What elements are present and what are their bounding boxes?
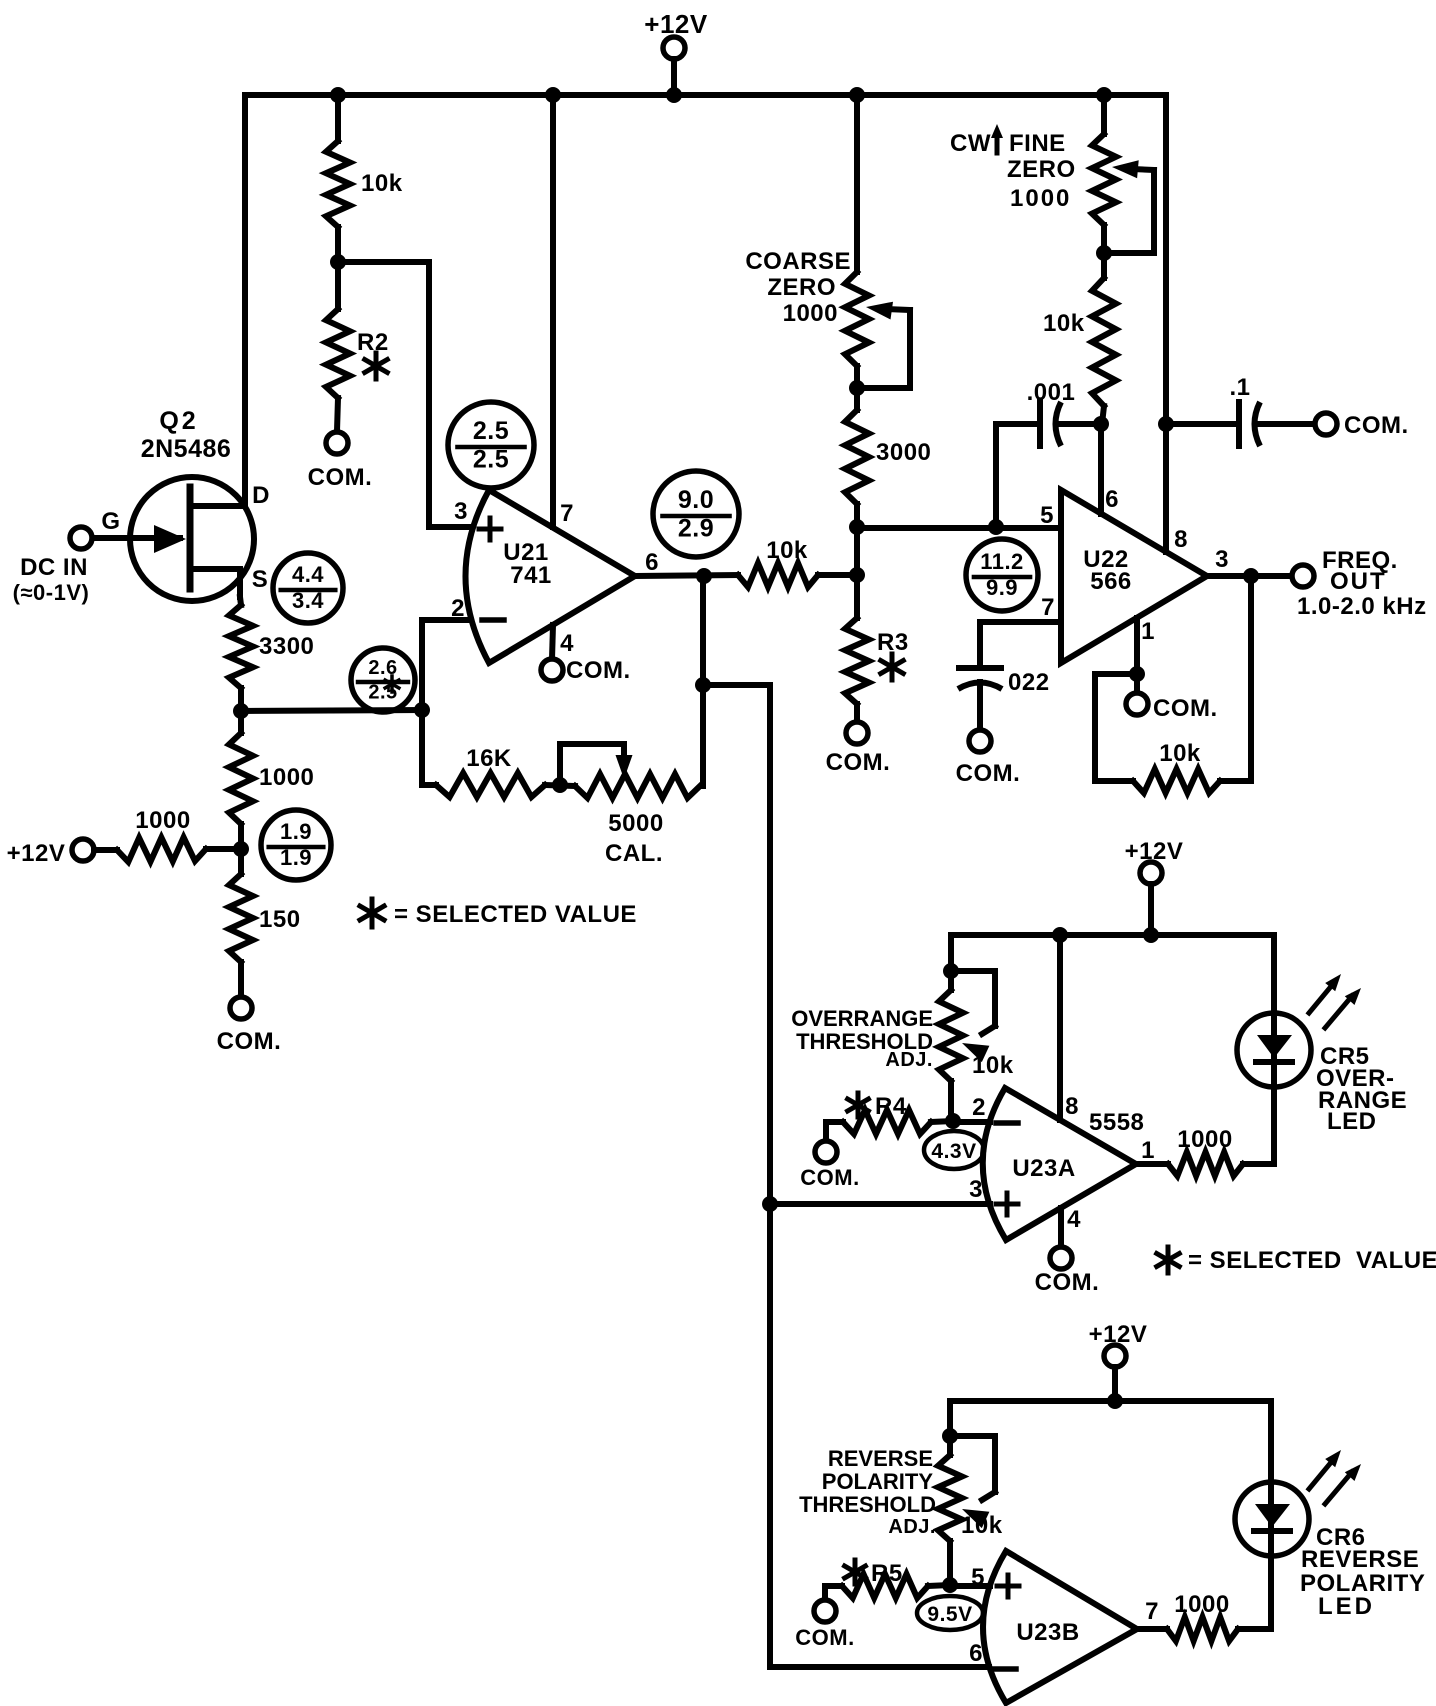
Q2 gate wire with arrow: [91, 535, 180, 541]
Q2 source wire: [193, 569, 240, 597]
junction output/feedback: [695, 677, 711, 693]
wire +12V rail (U23A): [951, 932, 1274, 938]
U23A minus symbol: [996, 1120, 1018, 1126]
svg-text:ADJ.: ADJ.: [888, 1516, 936, 1538]
svg-text:.001: .001: [1027, 379, 1076, 406]
wire +12V top power rail: [245, 92, 1166, 98]
junction +12V/1000/150 node: [233, 841, 249, 857]
svg-text:2N5486: 2N5486: [141, 435, 232, 463]
svg-text:R2: R2: [357, 329, 389, 356]
svg-text:COM.: COM.: [566, 657, 631, 684]
junction rail/10k: [330, 87, 346, 103]
terminal COM. (R2): [326, 432, 348, 454]
resistor R3 (selected): [845, 618, 869, 704]
wire output node to comparator branch: [703, 682, 770, 688]
svg-text:1000: 1000: [1010, 185, 1071, 212]
wire U23B pin6 input: [770, 1664, 989, 1670]
svg-text:7: 7: [1145, 1598, 1159, 1625]
terminal FREQ OUT: [1292, 565, 1314, 587]
svg-text:1.9: 1.9: [280, 819, 312, 844]
junction U23B pin5 node: [942, 1577, 958, 1593]
svg-text:G: G: [101, 508, 120, 535]
CR6 light arrows: [1309, 1460, 1333, 1489]
wire U23A pin4 to COM: [1058, 1208, 1064, 1247]
svg-text:8: 8: [1174, 526, 1188, 553]
resistor R2 (selected): [335, 262, 341, 309]
junction rail/+12V B: [1107, 1393, 1123, 1409]
svg-text:10k: 10k: [1159, 740, 1201, 767]
svg-text:10k: 10k: [961, 1512, 1003, 1539]
testpoint oval 9.5V: [917, 1596, 983, 1630]
svg-text:8: 8: [1065, 1093, 1079, 1120]
junction rail/fine zero: [1096, 87, 1112, 103]
label R3 asterisk: [890, 654, 895, 680]
svg-text:10k: 10k: [972, 1052, 1014, 1079]
wire U21 pin2 to feedback branch: [422, 620, 468, 785]
led CR6 wire: [1268, 1401, 1274, 1629]
svg-text:1000: 1000: [783, 300, 838, 327]
svg-text:COM.: COM.: [1344, 412, 1409, 439]
resistor 150: [238, 849, 244, 874]
junction rail drop/.1 cap: [1158, 416, 1174, 432]
led CR5 overrange: [1237, 1013, 1311, 1087]
svg-text:9.5V: 9.5V: [927, 1603, 972, 1626]
terminal COM. (150): [230, 997, 252, 1019]
potentiometer 5000 CAL: [575, 774, 700, 798]
junction rail/U21 pin7: [545, 87, 561, 103]
svg-text:(≈0-1V): (≈0-1V): [13, 580, 90, 605]
junction pin1 node: [1129, 666, 1145, 682]
junction U21 output: [696, 568, 712, 584]
junction branch/pin3 A: [762, 1196, 778, 1212]
svg-text:022: 022: [1008, 669, 1050, 696]
junction reverse wiper: [942, 1428, 958, 1444]
terminal COM. (U23A pin4): [1050, 1247, 1072, 1269]
junction 16K/5000: [552, 777, 568, 793]
svg-text:COM.: COM.: [800, 1165, 859, 1190]
testpoint circle 2.5/2.5: [448, 402, 534, 488]
svg-text:4.4: 4.4: [292, 562, 324, 587]
svg-text:+12V: +12V: [1089, 1321, 1148, 1348]
testpoint oval 4.3V: [924, 1131, 984, 1169]
svg-text:7: 7: [1041, 594, 1055, 621]
svg-text:R4: R4: [875, 1093, 907, 1120]
wire U21 pin4 to COM: [552, 625, 553, 659]
terminal COM. (.1 cap): [1315, 413, 1337, 435]
svg-text:+12V: +12V: [7, 840, 66, 867]
op-amp U21 741: [466, 490, 636, 663]
svg-text:CW: CW: [950, 130, 991, 157]
transistor Q2 2N5486 JFET body: [130, 477, 254, 601]
wire pin2 to U23A: [953, 1119, 990, 1125]
reverse wiper arm: [950, 1436, 995, 1492]
svg-text:COARSE: COARSE: [745, 248, 851, 275]
svg-text:= SELECTED VALUE: = SELECTED VALUE: [1188, 1247, 1436, 1274]
wire rail left drop to Q2 drain: [242, 95, 248, 506]
wire pin1 node to COM: [1134, 674, 1140, 693]
testpoint circle 4.4/3.4: [273, 553, 343, 623]
svg-text:4: 4: [1067, 1206, 1081, 1233]
terminal COM. (.022): [969, 730, 991, 752]
potentiometer overrange threshold 10k: [948, 935, 954, 990]
svg-text:COM.: COM.: [795, 1625, 854, 1650]
svg-text:2.5: 2.5: [473, 446, 509, 474]
junction 3000/pin5 wire: [849, 519, 865, 535]
svg-text:7: 7: [560, 500, 574, 527]
svg-text:3000: 3000: [876, 439, 931, 466]
svg-text:16K: 16K: [466, 745, 512, 772]
svg-text:U23B: U23B: [1016, 1619, 1079, 1646]
svg-text:1000: 1000: [1174, 1591, 1229, 1618]
U23B plus symbol: [997, 1584, 1019, 1589]
svg-text:1: 1: [1141, 1137, 1155, 1164]
label R4 with asterisk: [856, 1093, 861, 1117]
testpoint circle 11.2/9.9: [966, 539, 1038, 611]
svg-text:ZERO: ZERO: [1007, 156, 1076, 183]
power terminal +12V (U23A): [1140, 862, 1162, 884]
junction 10k/R3 node: [849, 567, 865, 583]
svg-text:1000: 1000: [135, 807, 190, 834]
junction inverting branch: [414, 702, 430, 718]
potentiometer CW FINE ZERO 1000: [1101, 95, 1107, 134]
coarse zero wiper arm: [857, 310, 910, 388]
CR5 light arrows: [1309, 984, 1333, 1013]
wire rail drop to U21 pin 7: [550, 95, 556, 527]
svg-text:THRESHOLD: THRESHOLD: [799, 1492, 936, 1517]
svg-text:= SELECTED VALUE: = SELECTED VALUE: [394, 901, 637, 928]
resistor 10k (U22 feedback): [1095, 674, 1137, 781]
junction U22 output: [1243, 568, 1259, 584]
terminal COM. (R5): [814, 1600, 836, 1622]
svg-text:REVERSE: REVERSE: [828, 1446, 933, 1471]
svg-text:OUT: OUT: [1330, 568, 1387, 595]
resistor 1000 (CR5): [1136, 1161, 1168, 1167]
svg-text:3: 3: [1215, 546, 1229, 573]
resistor 1000 (divider mid): [238, 711, 244, 733]
svg-text:ZERO: ZERO: [767, 274, 836, 301]
overrange wiper arm: [951, 971, 995, 1026]
svg-text:COM.: COM.: [1153, 695, 1218, 722]
junction U23A pin2 node: [945, 1113, 961, 1129]
svg-text:COM.: COM.: [956, 760, 1021, 787]
svg-text:COM.: COM.: [826, 749, 891, 776]
op-amp U23B: [983, 1551, 1137, 1703]
wire U21 pin6 output: [635, 575, 738, 576]
svg-text:FINE: FINE: [1009, 130, 1066, 157]
svg-text:1000: 1000: [1177, 1126, 1232, 1153]
wire rail right drop to U22 pin 8: [1163, 95, 1169, 552]
junction rail/pin8 A: [1052, 927, 1068, 943]
svg-text:COM.: COM.: [217, 1028, 282, 1055]
svg-text:4: 4: [560, 630, 574, 657]
testpoint circle 1.9/1.9: [261, 810, 331, 880]
svg-text:2.9: 2.9: [678, 515, 714, 543]
svg-text:1: 1: [1141, 618, 1155, 645]
svg-text:6: 6: [969, 1640, 983, 1667]
resistor 1000 (CR6): [1137, 1626, 1167, 1632]
capacitor .1 to COM: [1166, 421, 1235, 427]
wire to U22 pin 5: [857, 525, 1061, 531]
svg-text:COM.: COM.: [308, 464, 373, 491]
svg-text:LED: LED: [1327, 1108, 1377, 1135]
Q2 drain wire: [193, 503, 245, 509]
resistor 16K feedback: [422, 782, 436, 788]
svg-text:3.4: 3.4: [292, 588, 324, 613]
junction rail/+12V A: [1143, 927, 1159, 943]
junction rail/+12V terminal: [666, 87, 682, 103]
svg-text:POLARITY: POLARITY: [822, 1469, 934, 1494]
svg-text:566: 566: [1090, 568, 1132, 595]
potentiometer COARSE ZERO 1000: [854, 95, 860, 272]
svg-text:10k: 10k: [766, 537, 808, 564]
junction overrange wiper: [943, 963, 959, 979]
wire +12V rail (U23B): [950, 1398, 1271, 1404]
svg-text:2: 2: [972, 1094, 986, 1121]
wire U23A pin8 drop: [1057, 935, 1063, 1120]
svg-text:R5: R5: [871, 1560, 903, 1587]
terminal COM. (U22 pin1): [1126, 693, 1148, 715]
svg-text:D: D: [252, 482, 270, 509]
svg-text:LED: LED: [1318, 1593, 1375, 1620]
capacitor .022: [959, 665, 1001, 671]
svg-text:+12V: +12V: [1125, 838, 1184, 865]
label R2 asterisk: [374, 353, 379, 379]
wire pin6 drop: [1098, 424, 1104, 514]
resistor 3000: [845, 410, 869, 504]
svg-text:1.0-2.0 kHz: 1.0-2.0 kHz: [1297, 593, 1427, 620]
svg-text:REVERSE: REVERSE: [1301, 1546, 1419, 1573]
wire long branch down to U23 inputs: [767, 685, 773, 1667]
resistor 1000 (from +12V left): [94, 847, 117, 853]
svg-text:10k: 10k: [1043, 310, 1085, 337]
terminal COM. (R3): [846, 722, 868, 744]
5000 wiper arm: [560, 744, 624, 785]
junction .001/pin5 wire: [988, 519, 1004, 535]
svg-text:CAL.: CAL.: [605, 840, 663, 867]
terminal COM. (R4): [815, 1141, 837, 1163]
svg-text:150: 150: [259, 906, 301, 933]
power terminal +12V (U23B): [1104, 1345, 1126, 1367]
note selected value (lower): [1166, 1247, 1171, 1273]
led CR5 wire: [1271, 935, 1277, 1164]
svg-text:OVERRANGE: OVERRANGE: [791, 1006, 933, 1031]
wire U22 pin7 to .022: [980, 619, 1061, 625]
led CR6 reverse polarity: [1235, 1482, 1309, 1556]
junction fine wiper: [1096, 245, 1112, 261]
wire node to inverting input branch: [241, 710, 422, 711]
U21 plus symbol: [479, 527, 501, 532]
wire node down to R3: [854, 527, 860, 618]
wire U23A pin3 input: [770, 1201, 990, 1207]
svg-text:COM.: COM.: [1035, 1269, 1100, 1296]
terminal COM. (U21 pin4): [541, 659, 563, 681]
U21 minus symbol: [482, 617, 504, 623]
svg-text:Q2: Q2: [159, 407, 198, 435]
wire U22 pin1 down: [1134, 618, 1140, 674]
svg-text:9.0: 9.0: [678, 486, 714, 514]
wire 5000 right end up to output: [700, 576, 706, 786]
wire pin5 to U23B: [950, 1583, 990, 1589]
U23A plus symbol: [996, 1202, 1018, 1207]
svg-text:1.9: 1.9: [280, 845, 312, 870]
potentiometer reverse polarity threshold 10k: [947, 1401, 953, 1455]
svg-text:+12V: +12V: [644, 9, 708, 39]
svg-text:2.5: 2.5: [473, 417, 509, 445]
resistor 3300 (source): [240, 597, 241, 605]
op-amp U23A: [983, 1088, 1136, 1240]
power terminal +12V (top): [663, 37, 685, 59]
terminal DC IN gate: [70, 527, 92, 549]
svg-text:6: 6: [645, 549, 659, 576]
note selected value (upper): [370, 899, 375, 927]
svg-text:DC IN: DC IN: [20, 554, 88, 581]
wire R2 junction to U21 pin 3: [338, 262, 468, 527]
svg-text:1000: 1000: [259, 764, 314, 791]
svg-text:9.9: 9.9: [986, 575, 1018, 600]
svg-text:5000: 5000: [608, 810, 663, 837]
label R5 with asterisk: [853, 1560, 858, 1584]
capacitor .001: [996, 424, 1036, 527]
svg-text:U23A: U23A: [1012, 1155, 1075, 1182]
resistor R4 (selected): [826, 1122, 843, 1141]
svg-text:3300: 3300: [259, 633, 314, 660]
resistor 10k (rail to R2): [335, 95, 341, 141]
svg-text:5: 5: [1040, 502, 1054, 529]
svg-text:5558: 5558: [1089, 1109, 1144, 1136]
svg-text:5: 5: [971, 1564, 985, 1591]
U23B minus symbol: [994, 1666, 1016, 1672]
svg-text:10k: 10k: [361, 170, 403, 197]
junction coarse wiper: [849, 380, 865, 396]
svg-text:11.2: 11.2: [980, 549, 1024, 574]
svg-text:ADJ.: ADJ.: [885, 1049, 933, 1071]
wire U22 pin3 output: [1207, 573, 1292, 579]
testpoint circle 2.6/2.5: [351, 648, 415, 712]
junction source divider node: [233, 703, 249, 719]
svg-text:3: 3: [969, 1176, 983, 1203]
svg-text:3: 3: [454, 498, 468, 525]
svg-text:.1: .1: [1229, 374, 1250, 401]
junction 10k/R2/U21 pin3: [330, 254, 346, 270]
vco U22 566: [1061, 490, 1207, 663]
Q2 channel bar: [187, 487, 194, 589]
testpoint circle 9.0/2.9: [653, 471, 739, 557]
svg-text:S: S: [252, 566, 269, 593]
power terminal +12V (left): [72, 839, 94, 861]
fine zero wiper arm: [1104, 170, 1154, 253]
resistor R5 (selected): [825, 1586, 842, 1600]
resistor 10k (U21 to U22): [738, 563, 818, 587]
svg-text:741: 741: [510, 562, 552, 589]
svg-text:6: 6: [1105, 486, 1119, 513]
resistor 10k (fine zero): [1092, 278, 1116, 406]
svg-text:4.3V: 4.3V: [931, 1140, 976, 1163]
junction rail/coarse zero: [849, 87, 865, 103]
junction 10k/.001/pin6: [1093, 416, 1109, 432]
